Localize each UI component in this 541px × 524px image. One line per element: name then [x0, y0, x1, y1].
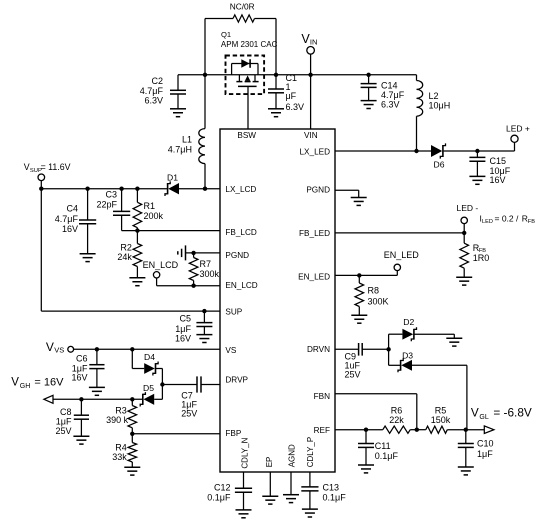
- svg-text:R4: R4: [115, 443, 127, 453]
- svg-text:33k: 33k: [112, 452, 127, 462]
- node junction VSUP on LX_LCD rail: [39, 187, 43, 191]
- svg-text:FBP: FBP: [225, 429, 241, 438]
- svg-text:PGND: PGND: [225, 251, 249, 260]
- svg-text:D1: D1: [167, 172, 178, 182]
- inductor L1: [168, 129, 205, 189]
- node junction VIN on rail: [308, 73, 312, 77]
- wire D2 cathode to ground: [414, 334, 454, 338]
- svg-text:EN_LED: EN_LED: [298, 273, 330, 282]
- wire EN_LCD net: [157, 285, 220, 287]
- svg-text:R7: R7: [200, 259, 212, 269]
- wire PGND right pin to ground: [335, 190, 359, 197]
- node junction R1/R2/C3 on FB_LCD net: [135, 228, 139, 232]
- capacitor C6: [71, 349, 104, 387]
- terminal EN_LCD: [143, 260, 179, 286]
- svg-text:GL: GL: [479, 414, 488, 421]
- svg-text:EN_LCD: EN_LCD: [225, 281, 257, 290]
- pin FBP label: [225, 429, 241, 438]
- svg-text:16V: 16V: [62, 224, 78, 234]
- svg-text:DRVN: DRVN: [307, 345, 330, 354]
- wire C9 to D2/D3 junction: [362, 348, 388, 350]
- wire Q1 gate to BSW pin: [247, 86, 249, 129]
- node junction C6 on VS net: [95, 347, 99, 351]
- svg-text:V: V: [24, 162, 30, 172]
- pin LX_LCD label: [225, 185, 256, 194]
- wire VGH net: [53, 398, 142, 400]
- svg-text:C10: C10: [477, 439, 494, 449]
- svg-text:VS: VS: [225, 346, 236, 355]
- svg-text:FB_LED: FB_LED: [299, 229, 330, 238]
- svg-text:25V: 25V: [345, 370, 361, 380]
- ground below C4: [80, 254, 96, 262]
- ground below C10: [458, 467, 474, 475]
- svg-text:10μH: 10μH: [429, 101, 451, 111]
- svg-text:C8: C8: [60, 407, 72, 417]
- svg-text:24k: 24k: [117, 252, 132, 262]
- capacitor C4: [55, 189, 96, 254]
- svg-text:L1: L1: [182, 135, 192, 145]
- svg-text:C11: C11: [375, 441, 391, 451]
- svg-text:0.1μF: 0.1μF: [207, 492, 231, 502]
- diode D3: [398, 351, 413, 373]
- capacitor C15: [469, 151, 510, 185]
- resistor R3: [106, 399, 136, 434]
- ground below RFB: [456, 277, 472, 285]
- svg-text:16V: 16V: [490, 175, 506, 185]
- ground below R8: [351, 315, 367, 323]
- node junction NC/0R left on rail: [203, 73, 207, 77]
- svg-text:R6: R6: [391, 405, 403, 415]
- diode D5: [140, 383, 154, 406]
- PGND left sideways ground symbol: [178, 245, 186, 260]
- svg-text:Q1: Q1: [221, 30, 231, 39]
- capacitor C10: [458, 430, 494, 467]
- node junction D4 branch on VS net: [130, 347, 134, 351]
- svg-text:NC/0R: NC/0R: [230, 2, 255, 12]
- ground below EP: [262, 496, 278, 504]
- ground at D2: [446, 338, 462, 346]
- resistor R1: [133, 189, 163, 231]
- pin EN_LCD label: [225, 281, 257, 290]
- svg-text:4.7μF: 4.7μF: [140, 86, 164, 96]
- node junction C1 on rail: [274, 73, 278, 77]
- svg-text:22k: 22k: [389, 415, 404, 425]
- ground below R2: [129, 278, 145, 286]
- svg-text:BSW: BSW: [237, 131, 256, 140]
- svg-text:C3: C3: [105, 190, 117, 200]
- svg-text:25V: 25V: [55, 426, 71, 436]
- terminal LED+: [506, 124, 530, 143]
- terminal VSUP = 11.6V: [24, 162, 71, 189]
- node junction R8 on EN_LED net: [357, 273, 361, 277]
- label VGL = -6.8V: [471, 406, 532, 421]
- pin EP label: [265, 457, 274, 468]
- svg-text:0.1μF: 0.1μF: [375, 451, 399, 461]
- svg-text:D6: D6: [434, 160, 445, 170]
- svg-text:D4: D4: [144, 352, 155, 362]
- terminal VVS: [46, 340, 220, 354]
- svg-text:R1: R1: [144, 201, 156, 211]
- ground below C5: [196, 335, 212, 343]
- svg-text:25V: 25V: [181, 409, 197, 419]
- pin DRVN label: [307, 345, 330, 354]
- pin CDLY_P label: [306, 437, 315, 468]
- svg-text:C6: C6: [76, 353, 88, 363]
- svg-text:C14: C14: [381, 80, 398, 90]
- svg-text:R5: R5: [435, 405, 447, 415]
- node junction R6/R5/FBN: [415, 428, 419, 432]
- svg-text:C4: C4: [66, 204, 78, 214]
- node junction C4 on LX_LCD rail: [85, 187, 89, 191]
- svg-text:IN: IN: [310, 38, 318, 47]
- pin VIN label: [304, 131, 318, 140]
- svg-text:EN_LED: EN_LED: [384, 250, 420, 260]
- svg-text:0.1μF: 0.1μF: [323, 492, 347, 502]
- svg-text:200k: 200k: [144, 211, 164, 221]
- svg-text:150k: 150k: [431, 415, 451, 425]
- svg-text:16V: 16V: [175, 333, 191, 343]
- node junction C14 on rail: [366, 73, 370, 77]
- svg-text:APM 2301 CAC: APM 2301 CAC: [221, 40, 278, 49]
- svg-text:D3: D3: [402, 351, 413, 361]
- wire LX_LCD rail right part to IC: [179, 188, 220, 190]
- svg-text:6.3V: 6.3V: [144, 96, 163, 106]
- wire up to D2: [389, 334, 403, 349]
- wire AGND pin stub: [290, 472, 292, 495]
- svg-text:LX_LED: LX_LED: [300, 148, 331, 157]
- resistor R6: [383, 405, 410, 433]
- svg-text:C12: C12: [214, 482, 231, 492]
- svg-text:GH: GH: [20, 383, 31, 390]
- wire CDLY_P pin stub: [309, 472, 311, 487]
- resistor R5: [426, 405, 451, 433]
- capacitor C5: [196, 311, 212, 335]
- svg-text:6.3V: 6.3V: [286, 102, 305, 112]
- wire FB_LCD net: [122, 230, 220, 232]
- ground below AGND: [283, 495, 299, 503]
- wire D4 cathode to DRVP junction: [156, 369, 163, 385]
- svg-text:μF: μF: [286, 91, 297, 101]
- svg-text:C5: C5: [179, 313, 191, 323]
- svg-text:R3: R3: [115, 405, 127, 415]
- wire EP pin stub: [269, 472, 271, 496]
- capacitor C12: [207, 482, 252, 510]
- svg-text:LED: LED: [482, 219, 493, 225]
- node junction R3/D5 on VGH net: [130, 397, 134, 401]
- resistor R7: [189, 253, 219, 286]
- svg-text:DRVP: DRVP: [225, 375, 248, 384]
- node junction C3 on LX_LCD rail: [119, 187, 123, 191]
- svg-text:300K: 300K: [368, 296, 389, 306]
- node junction L1 on LX_LCD rail: [203, 187, 207, 191]
- ground below C8: [73, 436, 89, 444]
- pin AGND label: [287, 444, 296, 467]
- svg-text:SUP: SUP: [225, 307, 242, 316]
- svg-text:FB_LCD: FB_LCD: [225, 228, 256, 237]
- svg-text:22pF: 22pF: [96, 199, 117, 209]
- arrow output VGL: [484, 426, 494, 434]
- capacitor C1: [268, 73, 304, 112]
- node junction R1 top on LX_LCD rail: [135, 187, 139, 191]
- svg-text:390 k: 390 k: [106, 415, 129, 425]
- ground below C12: [236, 510, 252, 518]
- diode D4: [144, 352, 158, 375]
- ground below C6: [89, 387, 105, 395]
- svg-text:C2: C2: [151, 76, 163, 86]
- node junction C11 on REF net: [364, 428, 368, 432]
- svg-text:V: V: [471, 406, 479, 420]
- svg-text:= -6.8V: = -6.8V: [493, 406, 531, 420]
- ground below C15: [469, 176, 485, 184]
- pin CDLY_N label: [240, 437, 249, 468]
- node junction C15: [475, 149, 479, 153]
- capacitor C3: [96, 189, 130, 231]
- pin VS label: [225, 346, 236, 355]
- node junction R7 bottom on EN_LCD net: [191, 284, 195, 288]
- main VIN rail wire: [178, 74, 417, 76]
- wire VSUP vertical feed to SUP: [40, 189, 42, 311]
- wire NC/0R left leg down to main rail and L1: [204, 19, 206, 129]
- wire D6 cathode to LED+: [444, 142, 515, 151]
- wire LX_LCD rail left part: [41, 188, 167, 190]
- wire D5 anode to DRVP junction: [154, 385, 162, 400]
- svg-text:4.7μH: 4.7μH: [168, 144, 192, 154]
- svg-text:L2: L2: [429, 91, 439, 101]
- pin FB_LCD label: [225, 228, 256, 237]
- transistor Q1 label: [221, 30, 278, 49]
- resistor NC/0R (top bypass): [205, 2, 276, 22]
- pin FB_LED label: [299, 229, 330, 238]
- capacitor C5 label: [175, 313, 192, 343]
- capacitor C13: [301, 482, 346, 509]
- capacitor C14: [361, 75, 405, 110]
- ground below C1: [268, 109, 284, 117]
- pin DRVP label: [225, 375, 248, 384]
- wire NC/0R right leg down to main rail: [275, 19, 277, 75]
- svg-text:R2: R2: [120, 242, 132, 252]
- svg-text:PGND: PGND: [306, 186, 330, 195]
- svg-text:C15: C15: [490, 156, 507, 166]
- svg-text:D2: D2: [403, 317, 414, 327]
- wire FBP net: [132, 433, 220, 435]
- svg-text:300k: 300k: [200, 269, 220, 279]
- inductor L2: [417, 75, 451, 151]
- pin EN_LED label: [298, 273, 330, 282]
- node junction RFB on FB_LED net: [462, 231, 466, 235]
- resistor R2: [117, 231, 141, 278]
- wire DRVN pin to C9: [335, 348, 359, 350]
- pin LX_LED label: [300, 148, 331, 157]
- label ILED equation: [480, 213, 536, 224]
- capacitor C7: [181, 376, 201, 418]
- pin PGND left label: [225, 251, 249, 260]
- wire FB_LED net: [335, 232, 464, 234]
- pin PGND right label: [306, 186, 330, 195]
- svg-text:LED +: LED +: [506, 124, 530, 134]
- terminal VIN: [301, 32, 317, 75]
- wire D3 anode to VGL node: [412, 365, 467, 429]
- svg-text:= 0.2 /: = 0.2 /: [495, 213, 520, 223]
- wire REF net: [335, 429, 383, 431]
- node junction VGL: [464, 428, 468, 432]
- pin BSW label: [237, 131, 256, 140]
- svg-text:D5: D5: [143, 383, 154, 393]
- svg-text:R8: R8: [368, 286, 380, 296]
- svg-text:CDLY_N: CDLY_N: [240, 437, 249, 468]
- pin SUP label: [225, 307, 242, 316]
- svg-text:4.7μF: 4.7μF: [55, 214, 79, 224]
- pin REF label: [314, 426, 330, 435]
- svg-text:V: V: [46, 340, 54, 354]
- svg-text:FBN: FBN: [314, 392, 330, 401]
- terminal EN_LED: [384, 250, 420, 271]
- Q1 body diode loop: [232, 59, 258, 75]
- svg-text:LED -: LED -: [457, 203, 479, 213]
- capacitor C9: [345, 343, 363, 380]
- resistor R4: [112, 434, 136, 467]
- svg-text:16V: 16V: [71, 372, 87, 382]
- svg-text:1R0: 1R0: [473, 253, 490, 263]
- ground below C14: [361, 101, 377, 109]
- svg-text:AGND: AGND: [287, 444, 296, 467]
- diode D1: [165, 172, 179, 196]
- resistor R8: [355, 275, 389, 315]
- wire R5 to VGL node: [447, 429, 484, 431]
- node junction R7 top on PGND net: [191, 251, 195, 255]
- wire R6 to R5: [410, 429, 426, 431]
- capacitor C11: [358, 430, 398, 465]
- node junction C8 on VGH net: [79, 397, 83, 401]
- ground at PGND right: [351, 198, 367, 206]
- svg-text:C13: C13: [323, 482, 340, 492]
- svg-text:= 16V: = 16V: [34, 377, 64, 389]
- op-amp/controller IC U1 body: [220, 129, 335, 472]
- pin FBN label: [314, 392, 330, 401]
- wire C7 to DRVP pin: [201, 384, 220, 386]
- wire down to D3: [389, 349, 400, 365]
- label VGH = 16V: [11, 377, 64, 390]
- node junction C5 on SUP net: [202, 309, 206, 313]
- capacitor C8: [55, 399, 89, 436]
- wire FBN net: [335, 394, 417, 430]
- svg-text:LX_LCD: LX_LCD: [225, 185, 256, 194]
- node junction FBP: [130, 432, 134, 436]
- svg-text:REF: REF: [314, 426, 330, 435]
- node junction DRVP: [160, 382, 164, 386]
- svg-text:FB: FB: [528, 219, 535, 225]
- transistor Q1 dashed package box: [226, 56, 265, 95]
- svg-text:6.3V: 6.3V: [381, 100, 400, 110]
- Q1 MOSFET symbol: [236, 75, 258, 87]
- wire EN_LED net: [335, 271, 397, 276]
- svg-text:CDLY_P: CDLY_P: [306, 437, 315, 468]
- svg-text:EN_LCD: EN_LCD: [143, 260, 179, 270]
- ground below C11: [358, 465, 374, 473]
- wire CDLY_N pin stub: [243, 472, 245, 488]
- wire PGND pin net: [186, 252, 221, 254]
- svg-text:VIN: VIN: [304, 131, 318, 140]
- wire SUP net: [41, 310, 220, 312]
- svg-text:EP: EP: [265, 457, 274, 468]
- node junction D2/D3: [386, 347, 390, 351]
- wire DRVP to C7: [162, 384, 197, 386]
- svg-text:1μF: 1μF: [477, 449, 493, 459]
- arrow output VGH: [44, 395, 53, 403]
- diode D6: [431, 143, 446, 169]
- diode D2: [402, 317, 416, 341]
- capacitor C2: [140, 75, 186, 109]
- wire VIN stub into IC: [310, 75, 312, 129]
- ground below C2: [170, 109, 186, 117]
- wire LX_LED net: [335, 150, 431, 152]
- ground below R4: [124, 467, 140, 475]
- svg-text:= 11.6V: = 11.6V: [41, 162, 71, 172]
- ground below C13: [302, 509, 318, 517]
- svg-text:VS: VS: [54, 346, 64, 355]
- resistor RFB: [460, 233, 489, 277]
- svg-text:V: V: [11, 377, 19, 389]
- node junction L2 on LX_LED net: [414, 149, 418, 153]
- wire VS to D4 anode: [132, 349, 144, 368]
- terminal LED-: [457, 203, 479, 233]
